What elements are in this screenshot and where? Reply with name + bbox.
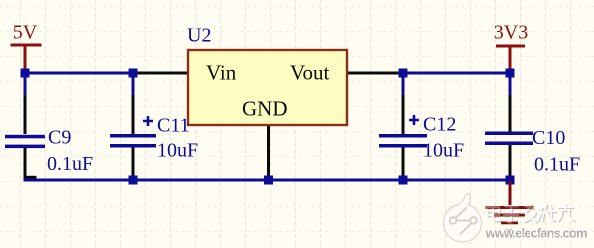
ground bar 1 (486, 206, 534, 209)
ground bars overlay through watermark (486, 206, 534, 224)
power 5V stem (24, 47, 27, 72)
capacitor C12 top lead (402, 95, 405, 134)
svg-text:0.1uF: 0.1uF (534, 154, 580, 176)
capacitor C10 plates (485, 132, 533, 136)
svg-text:10uF: 10uF (157, 140, 198, 162)
capacitor C10 top lead (509, 95, 512, 134)
capacitor C11 bottom lead (132, 148, 135, 179)
svg-text:C12: C12 (423, 114, 456, 136)
wire corner bottom left (24, 176, 37, 179)
svg-text:5V: 5V (13, 22, 38, 44)
C12 polarity plus (409, 115, 419, 125)
capacitor C11 plates (110, 134, 156, 138)
ground bar 3 (501, 222, 518, 225)
svg-text:10uF: 10uF (423, 140, 464, 162)
pin Vin (U2 left pin) (133, 72, 187, 75)
regulator U2 body (188, 50, 347, 125)
junction node ground (506, 176, 515, 185)
capacitor C9 top lead (24, 95, 27, 134)
junction node GND pin bottom (264, 176, 273, 185)
junction node 5V/C9 (21, 69, 30, 78)
capacitor C12 plates (379, 134, 427, 138)
wire stub 5V down to C9 (24, 73, 27, 95)
svg-text:U2: U2 (187, 25, 211, 47)
capacitor C9 plates (5, 135, 45, 139)
svg-text:www.elecfans.com: www.elecfans.com (485, 226, 588, 241)
power 3V3 stem (509, 48, 512, 72)
svg-text:GND: GND (242, 97, 288, 121)
junction node C12 top (399, 69, 408, 78)
wire stub C10 top (509, 73, 512, 95)
svg-text:Vout: Vout (290, 61, 329, 85)
svg-text:C10: C10 (532, 127, 565, 149)
watermark logo circle (444, 193, 482, 242)
wire bottom bus (24, 179, 512, 182)
watermark text elecfans chinese (487, 204, 575, 224)
junction node C11 top (129, 69, 138, 78)
capacitor C11 top lead (132, 95, 135, 134)
power 5V bar symbol (11, 44, 42, 47)
junction node C11 bottom (129, 176, 138, 185)
junction node 3V3/C10 (506, 69, 515, 78)
svg-text:C9: C9 (48, 127, 71, 149)
ground bar 2 (494, 214, 525, 217)
C11 polarity plus (143, 116, 153, 126)
capacitor C9 bottom lead (24, 148, 27, 179)
capacitor C12 bottom lead (402, 148, 405, 179)
power 3V3 bar symbol (496, 45, 525, 48)
wire stub C11 top (132, 73, 135, 95)
svg-text:0.1uF: 0.1uF (47, 153, 93, 175)
svg-text:Vin: Vin (206, 61, 237, 85)
junction node C12 bottom (399, 176, 408, 185)
pin Vout (U2 right pin) (348, 72, 403, 75)
ground stem (509, 181, 512, 207)
svg-text:C11: C11 (157, 115, 190, 137)
wire top right (Vout to 3V3 node) (402, 72, 512, 75)
ground bar 4 (507, 229, 513, 232)
capacitor C10 bottom lead (509, 145, 512, 179)
pin GND (U2 bottom pin) (267, 126, 270, 180)
svg-text:3V3: 3V3 (494, 22, 528, 44)
wire stub C12 top (402, 73, 405, 95)
wire top left (5V node to Vin pin) (24, 72, 135, 75)
